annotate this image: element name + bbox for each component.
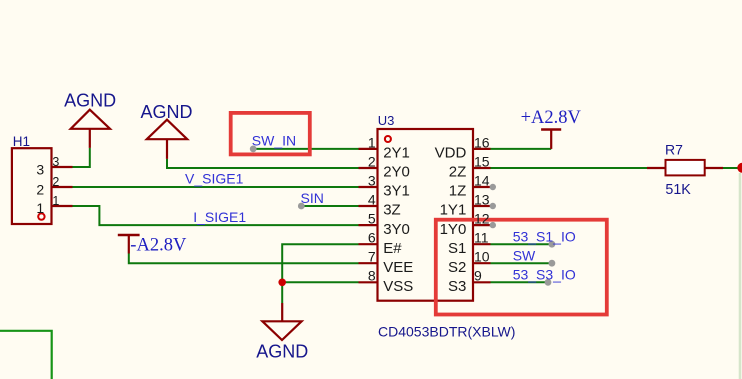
svg-text:SW_IN: SW_IN [252, 132, 296, 148]
svg-text:1: 1 [52, 194, 59, 208]
svg-text:53_S1_IO: 53_S1_IO [513, 228, 576, 244]
svg-text:S3: S3 [448, 278, 466, 295]
svg-text:2: 2 [368, 153, 376, 169]
svg-text:AGND: AGND [256, 341, 308, 361]
svg-text:H1: H1 [13, 134, 30, 149]
svg-text:R7: R7 [665, 142, 683, 158]
svg-text:SW: SW [513, 247, 536, 263]
svg-text:S1: S1 [448, 240, 466, 257]
svg-text:SIN: SIN [301, 190, 324, 206]
svg-text:1: 1 [368, 134, 376, 150]
svg-text:+A2.8V: +A2.8V [521, 108, 582, 128]
svg-text:3: 3 [368, 172, 376, 188]
svg-text:1: 1 [36, 200, 44, 216]
svg-text:VSS: VSS [383, 278, 413, 295]
svg-text:7: 7 [368, 249, 376, 265]
svg-text:53_S3_IO: 53_S3_IO [513, 266, 576, 282]
svg-text:2Y1: 2Y1 [383, 145, 410, 162]
svg-text:9: 9 [474, 268, 482, 284]
svg-text:1Z: 1Z [449, 183, 467, 200]
svg-text:5: 5 [368, 211, 376, 227]
svg-text:3Y0: 3Y0 [383, 221, 410, 238]
svg-text:AGND: AGND [140, 102, 192, 122]
svg-text:V_SIGE1: V_SIGE1 [185, 170, 244, 186]
svg-text:2Y0: 2Y0 [383, 164, 410, 181]
svg-text:8: 8 [368, 268, 376, 284]
svg-text:14: 14 [474, 172, 490, 188]
svg-text:3: 3 [36, 161, 44, 177]
svg-text:13: 13 [474, 191, 490, 207]
svg-text:CD4053BDTR(XBLW): CD4053BDTR(XBLW) [378, 324, 515, 340]
svg-text:VDD: VDD [435, 145, 467, 162]
svg-text:I_SIGE1: I_SIGE1 [193, 209, 246, 225]
svg-text:VEE: VEE [383, 259, 413, 276]
svg-text:3Y1: 3Y1 [383, 183, 410, 200]
svg-text:2: 2 [52, 175, 59, 189]
svg-text:1Y0: 1Y0 [440, 221, 467, 238]
svg-text:4: 4 [368, 191, 376, 207]
svg-text:E#: E# [383, 240, 402, 257]
svg-text:16: 16 [474, 134, 490, 150]
svg-text:2Z: 2Z [449, 164, 467, 181]
svg-text:1Y1: 1Y1 [440, 202, 467, 219]
svg-text:3: 3 [52, 155, 59, 169]
svg-text:2: 2 [36, 181, 44, 197]
svg-text:AGND: AGND [64, 91, 116, 111]
svg-text:U3: U3 [378, 113, 395, 128]
svg-text:12: 12 [474, 211, 490, 227]
svg-text:10: 10 [474, 249, 490, 265]
svg-text:S2: S2 [448, 259, 466, 276]
svg-text:11: 11 [474, 230, 489, 246]
svg-text:15: 15 [474, 153, 490, 169]
svg-text:-A2.8V: -A2.8V [130, 235, 187, 255]
svg-text:6: 6 [368, 230, 376, 246]
svg-text:3Z: 3Z [383, 202, 401, 219]
svg-text:51K: 51K [665, 182, 691, 198]
